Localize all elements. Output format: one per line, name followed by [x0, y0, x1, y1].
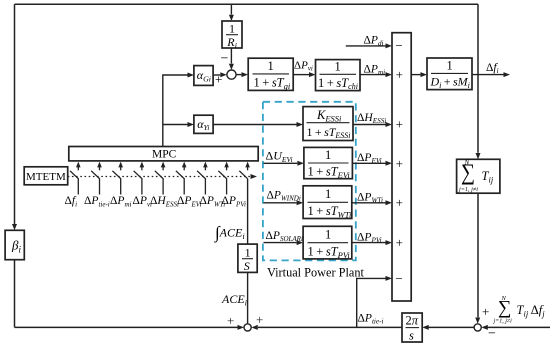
switch column 2	[91, 162, 102, 195]
svg-text:1: 1	[447, 59, 453, 73]
svg-text:−: −	[488, 327, 496, 342]
svg-text:Di + sMi: Di + sMi	[430, 75, 470, 90]
sum junction S1	[227, 70, 236, 79]
switch column 8	[218, 162, 229, 195]
tie-line gain block 2pi/s	[402, 313, 422, 343]
svg-text:MTETM: MTETM	[26, 171, 66, 183]
wire: MPC output riser to alpha blocks	[163, 75, 188, 147]
wire: alpha_Yi output into ESS block	[213, 124, 296, 126]
alpha_Gi block	[194, 66, 213, 86]
svg-text:2π: 2π	[406, 314, 419, 328]
wire: ACE sum up to 1/S	[247, 272, 249, 323]
MPC block	[69, 147, 258, 161]
beta_i block	[5, 230, 24, 259]
switch column 9	[239, 162, 250, 179]
svg-text:1: 1	[335, 60, 341, 74]
switch column 1	[70, 162, 81, 195]
alpha_Yi block	[194, 115, 213, 133]
svg-text:+: +	[396, 195, 403, 210]
svg-text:∑: ∑	[461, 160, 475, 185]
sum junction S3 (tie-line)	[474, 324, 481, 331]
svg-text:j=1, j≠i: j=1, j≠i	[458, 186, 478, 193]
wire: feedback riser x=478 top	[477, 4, 479, 74]
svg-text:1: 1	[245, 246, 251, 260]
wire: delta f_i output line	[472, 74, 504, 76]
svg-text:∑: ∑	[498, 298, 512, 319]
governor block 1/(1+sTgi)	[248, 58, 293, 91]
wire: from right edge into S3	[485, 326, 550, 328]
svg-text:+: +	[215, 72, 222, 87]
wire: beta_i output down to bottom line	[14, 260, 16, 328]
governor droop block 1/Ri	[222, 21, 242, 50]
svg-text:+: +	[256, 312, 263, 327]
summing rectangle	[392, 33, 411, 301]
wire: turbine to summing rect	[360, 74, 386, 76]
wire: EV input stub	[264, 162, 298, 164]
wire: Tij block down to bottom-right sum S3	[477, 193, 479, 317]
svg-text:ACEi: ACEi	[221, 292, 248, 308]
wire: governor to turbine	[293, 74, 309, 76]
label sum Tij delta f_j	[493, 295, 546, 325]
svg-text:+: +	[482, 304, 489, 319]
switch column 6	[176, 162, 187, 195]
wire: load disturbance delta P_di into summing rect	[346, 45, 386, 47]
synchronizing coefficient block sum Tij	[457, 158, 500, 193]
svg-text:S: S	[244, 259, 250, 273]
wire: drop from top line into 1/Ri	[230, 4, 232, 14]
svg-text:1: 1	[229, 22, 235, 36]
svg-text:Virtual Power Plant: Virtual Power Plant	[267, 266, 365, 280]
svg-text:1: 1	[325, 228, 331, 242]
wire: EV output to summing rect	[352, 162, 385, 164]
svg-text:+: +	[227, 313, 234, 328]
sum junction S2 (ACE)	[244, 324, 251, 331]
svg-text:j=1, j≠i: j=1, j≠i	[493, 319, 513, 325]
MTETM block	[24, 167, 67, 185]
svg-text:+: +	[396, 235, 403, 250]
ESS block K_ESSi/(1+sT_ESSi)	[303, 107, 353, 141]
wire: alpha_Gi to sum S1	[213, 74, 220, 76]
svg-text:+: +	[396, 156, 403, 171]
inertia block 1/(Di+sMi)	[427, 58, 472, 90]
wire: ESS output to summing rect	[353, 124, 386, 126]
svg-text:1: 1	[268, 59, 274, 73]
wire: PV input stub	[264, 242, 297, 244]
wire: S3 to 2pi/s block	[429, 326, 475, 328]
switch column 7	[197, 162, 208, 195]
switch column 5	[155, 162, 166, 195]
wire: PV output to summing rect	[352, 242, 386, 244]
svg-text:−: −	[221, 52, 229, 67]
svg-text:+: +	[396, 117, 403, 132]
integrator block 1/S	[238, 244, 257, 273]
switch column 4	[134, 162, 145, 195]
svg-text:Tij Δfj: Tij Δfj	[517, 303, 546, 319]
wire: WT output to summing rect	[352, 202, 386, 204]
wire: branch to alpha_Yi	[163, 124, 188, 126]
WT block 1/(1+sT_WTi)	[303, 186, 352, 220]
wire: 1/S up to switch column 9	[247, 179, 249, 244]
dotted control line from MTETM	[68, 176, 252, 178]
svg-text:1: 1	[325, 187, 331, 201]
wire: 2pi/s output to ACE sum	[258, 326, 402, 328]
virtual power plant dashed box	[263, 102, 356, 261]
wire: outer feedback left line	[14, 4, 16, 225]
wire: 1/Ri down to sum S1	[230, 48, 232, 64]
EV block 1/(1+sT_EVi)	[304, 147, 353, 180]
wire: outer feedback top line	[15, 3, 479, 5]
wire: tie-line branch up into summing rect minus	[357, 278, 386, 327]
svg-text:MPC: MPC	[152, 148, 177, 160]
svg-text:−: −	[395, 38, 402, 53]
wire: summing rect to inertia block	[411, 74, 420, 76]
wire: WT input stub	[264, 202, 297, 204]
wire: bottom line from beta_i to ACE sum	[15, 326, 238, 328]
wire: S1 to governor block	[236, 74, 241, 76]
switch column 3	[112, 162, 123, 195]
turbine block 1/(1+sTchi)	[316, 60, 361, 92]
wire: feedback from delta f_i down to Tij sum block	[477, 75, 479, 153]
svg-text:+: +	[396, 67, 403, 82]
svg-text:s: s	[409, 329, 414, 343]
svg-text:1: 1	[325, 148, 331, 162]
PV block 1/(1+sT_PVi)	[303, 226, 352, 260]
svg-text:−: −	[395, 271, 402, 286]
